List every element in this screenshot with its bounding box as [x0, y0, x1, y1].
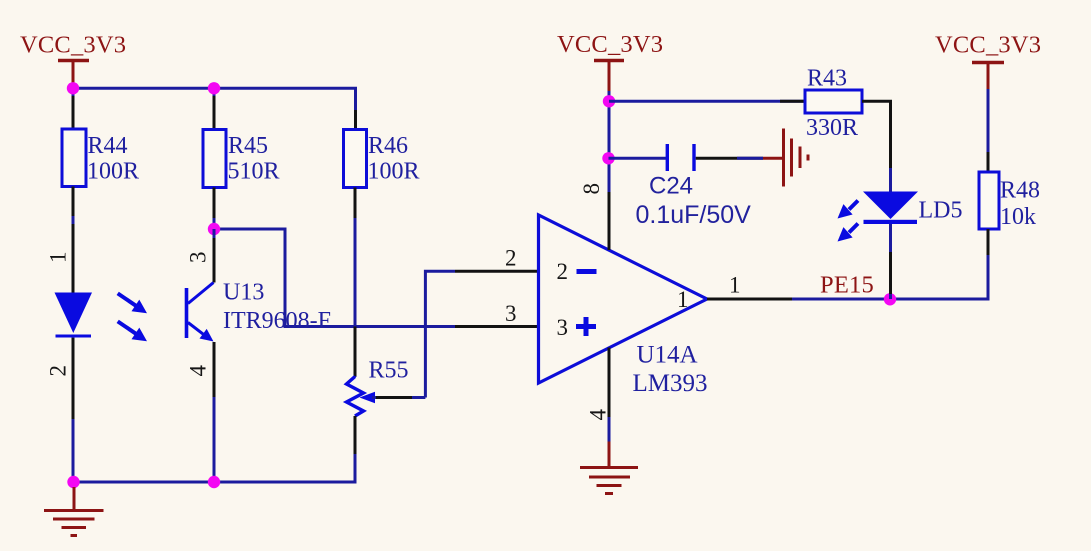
svg-text:330R: 330R	[806, 115, 858, 141]
wire output net to PE15 junction and R48	[792, 255, 988, 299]
wire C24 to ground	[696, 157, 763, 160]
opamp output pin 1	[707, 298, 792, 301]
junction dot PE15	[884, 293, 896, 305]
opamp input pin 2	[455, 270, 539, 273]
svg-text:VCC_3V3: VCC_3V3	[557, 31, 663, 58]
wire R45 to collector node	[213, 188, 216, 230]
junction dot vcc mid	[603, 95, 615, 107]
resistor R48	[979, 172, 1040, 230]
svg-text:ITR9608-F: ITR9608-F	[223, 308, 331, 334]
opamp pin 4 wire to ground	[608, 348, 611, 418]
resistor R45	[203, 130, 280, 188]
ground symbol rotated near C24	[784, 129, 809, 187]
svg-text:3: 3	[557, 315, 569, 340]
junction dot LED-gnd	[67, 476, 79, 488]
resistor R46	[344, 130, 420, 188]
svg-text:U13: U13	[223, 280, 264, 306]
power symbol VCC_3V3 right	[935, 32, 1041, 91]
svg-text:8: 8	[579, 183, 604, 195]
wire collector node to opamp pin3	[214, 229, 455, 327]
svg-text:1: 1	[677, 287, 689, 312]
light arrow 1 of LD5	[838, 201, 859, 219]
svg-text:4: 4	[586, 409, 611, 421]
svg-text:C24: C24	[649, 173, 693, 200]
light arrow 2 of LD5	[838, 224, 859, 242]
svg-text:4: 4	[186, 365, 211, 377]
light arrow 1 of U13	[118, 293, 147, 313]
wire top rail left	[73, 88, 356, 110]
wire R46 to R55	[354, 188, 357, 378]
wire vcc right to R48	[987, 89, 990, 172]
wiper arrow R55	[360, 392, 426, 404]
capacitor C24	[636, 144, 752, 229]
svg-text:R45: R45	[228, 133, 268, 159]
power symbol VCC_3V3 middle	[557, 31, 663, 92]
wire vcc mid vertical to pin8	[608, 91, 611, 250]
ground symbol opamp	[580, 468, 638, 494]
svg-text:3: 3	[186, 252, 211, 264]
svg-text:R46: R46	[368, 133, 408, 159]
potentiometer R55	[347, 358, 409, 417]
ground rail	[74, 480, 356, 482]
junction dot rail R45	[208, 82, 220, 94]
svg-text:100R: 100R	[368, 159, 420, 185]
resistor R44	[62, 129, 139, 187]
svg-text:PE15: PE15	[820, 272, 874, 299]
svg-text:2: 2	[557, 259, 569, 284]
wire vcc to R44	[72, 88, 75, 129]
svg-text:1: 1	[46, 252, 71, 264]
wire wiper to opamp pin2	[425, 271, 455, 397]
svg-text:R43: R43	[807, 66, 847, 92]
svg-text:1: 1	[729, 273, 741, 298]
svg-text:LD5: LD5	[919, 198, 963, 224]
wire LED to ground rail	[72, 337, 75, 482]
wire collector pin	[213, 229, 216, 283]
ground symbol bottom-left	[44, 487, 104, 536]
svg-text:2: 2	[46, 365, 71, 377]
svg-text:100R: 100R	[87, 159, 139, 185]
wire R44 to LED	[72, 187, 75, 294]
svg-text:R48: R48	[1000, 178, 1040, 204]
wire emitter to ground rail	[213, 342, 216, 482]
wire LD5 to PE15 node	[889, 224, 892, 299]
wire R45 branch	[213, 88, 216, 129]
svg-text:U14A: U14A	[637, 342, 698, 369]
svg-text:R44: R44	[88, 133, 128, 159]
svg-text:3: 3	[505, 301, 517, 326]
resistor R43	[805, 66, 862, 142]
wire mid rail to R43	[609, 100, 805, 103]
junction dot emitter-gnd	[208, 476, 220, 488]
phototransistor U13	[187, 280, 332, 342]
opamp input pin 3	[455, 325, 539, 328]
junction dot C24 branch	[602, 152, 614, 164]
wire rail to R46	[354, 110, 357, 130]
svg-text:2: 2	[505, 246, 517, 271]
wire R48 to output net	[987, 229, 990, 255]
svg-text:0.1uF/50V: 0.1uF/50V	[636, 201, 752, 229]
wire C24 branch	[609, 157, 667, 160]
svg-text:R55: R55	[369, 358, 409, 384]
light arrow 2 of U13	[118, 321, 147, 341]
wire R55 to ground rail	[354, 416, 357, 482]
junction dot top-left	[67, 82, 79, 94]
junction dot collector node	[208, 223, 220, 235]
svg-text:510R: 510R	[228, 159, 280, 185]
svg-text:VCC_3V3: VCC_3V3	[20, 32, 126, 59]
op-amp U14A	[539, 215, 708, 397]
wire R43 to LD5	[862, 101, 891, 191]
LED LD5	[863, 192, 963, 225]
power symbol VCC_3V3 left	[20, 32, 126, 92]
svg-text:10k: 10k	[1000, 204, 1036, 230]
svg-text:VCC_3V3: VCC_3V3	[935, 32, 1041, 59]
LED of optocoupler U13	[55, 293, 93, 337]
svg-text:LM393: LM393	[633, 370, 708, 397]
